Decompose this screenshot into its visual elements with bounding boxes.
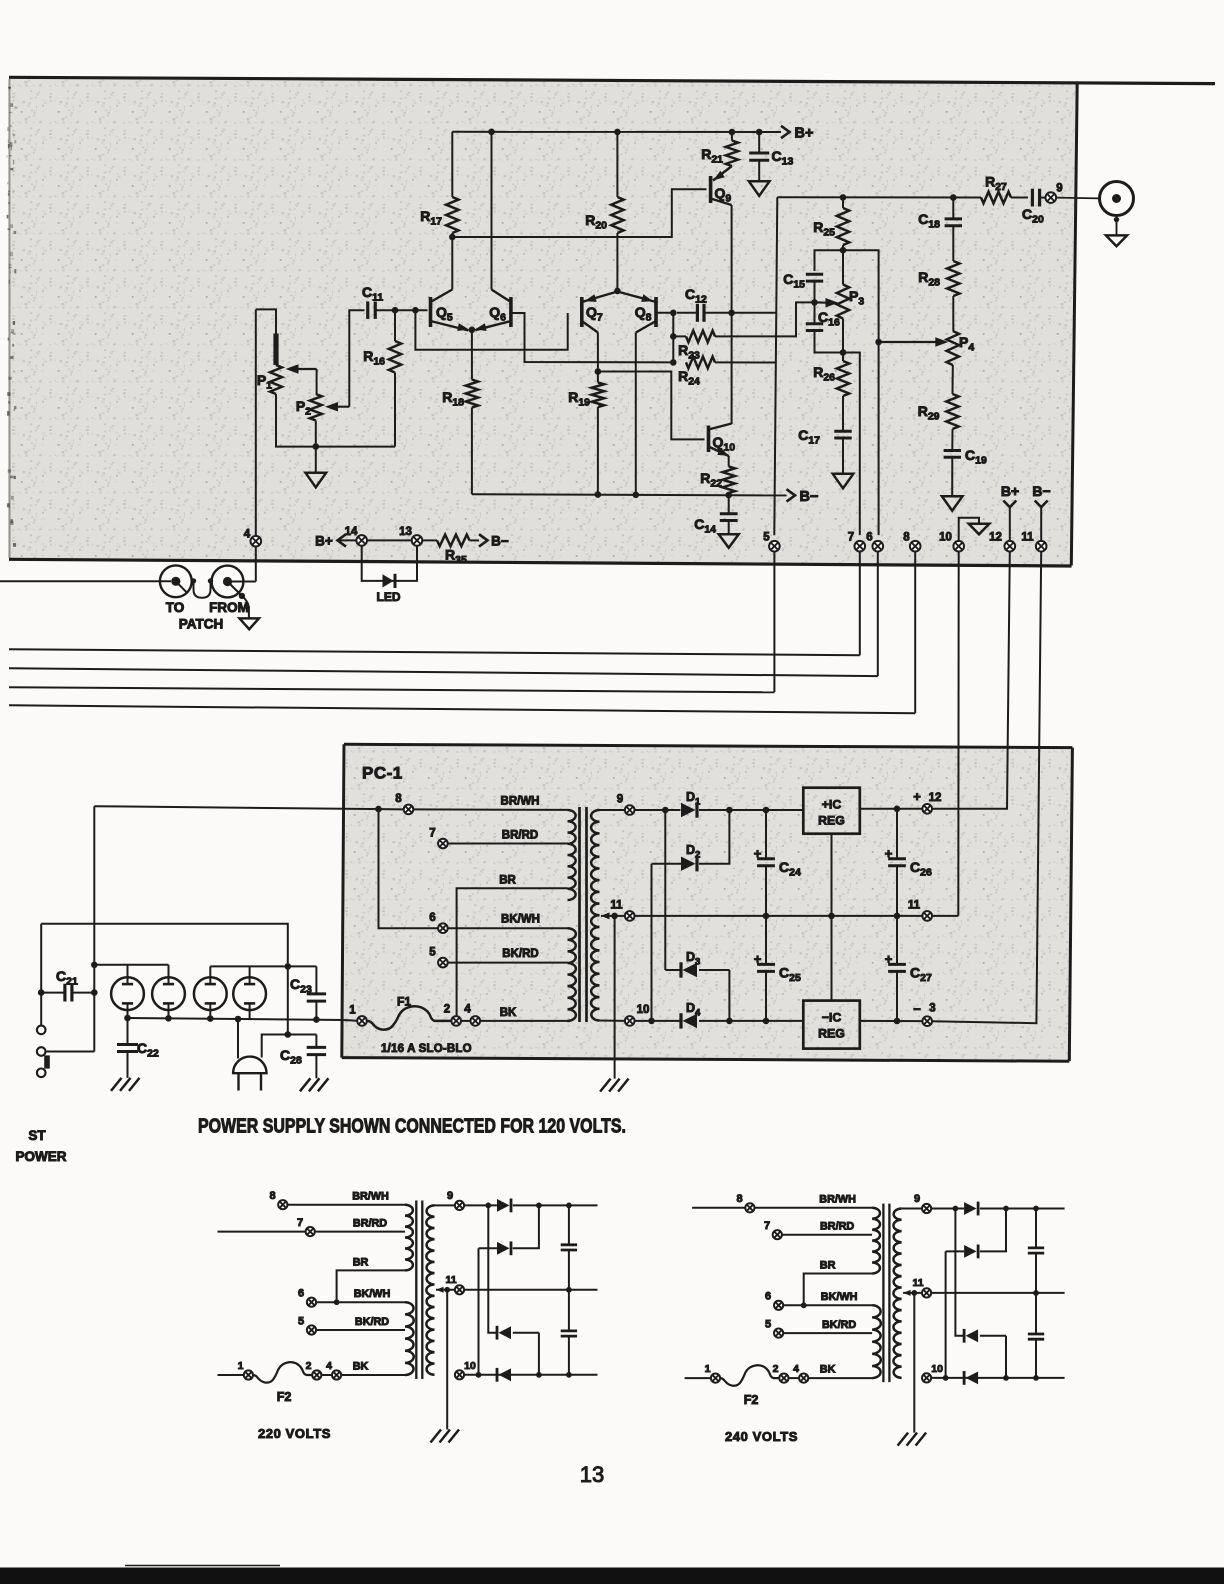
terminal 2 (PC-1) <box>451 1016 461 1026</box>
resistor R19 <box>592 372 604 495</box>
label R25 <box>813 219 835 239</box>
label BK/WH (220V) <box>354 1288 391 1300</box>
label BK (240V) <box>820 1364 836 1376</box>
label TO <box>166 600 185 615</box>
label D3 <box>686 950 700 968</box>
label 2 (220V) <box>306 1360 312 1372</box>
node: R19 bottom <box>595 491 602 498</box>
label F2 (220V) <box>277 1390 292 1404</box>
AC plug <box>233 1057 266 1091</box>
ground (C17) <box>833 474 854 489</box>
svg-text:14: 14 <box>345 526 358 538</box>
resistor R27 <box>981 192 1028 204</box>
P1 wiper arrow <box>286 364 317 374</box>
potentiometer P3 <box>837 250 849 318</box>
svg-text:B+: B+ <box>1001 483 1019 499</box>
wire tap to chassis (240V) <box>913 1293 915 1433</box>
label 6 (220V) <box>298 1288 304 1300</box>
footer stray mark <box>125 1565 280 1567</box>
wire link line 4 (to 8) <box>9 705 915 713</box>
label 1 (PC-1) <box>349 1005 356 1017</box>
node: R23 left <box>670 333 677 340</box>
ground hook (terminal 10) <box>959 518 979 541</box>
diode D4 <box>681 1013 697 1028</box>
label BK/RD (220V) <box>355 1316 389 1328</box>
diode D1 <box>681 802 697 817</box>
label Q10 <box>713 434 736 454</box>
node: D3 bottom (220V) <box>536 1372 542 1378</box>
capacitor C20 <box>1032 189 1045 207</box>
node: C18 top <box>950 194 957 201</box>
label 6 (PC-1) <box>429 912 435 924</box>
label 9 (220V) <box>447 1190 453 1202</box>
node: 9-row branch (240V) <box>953 1206 959 1212</box>
wire secondary to terminal 9 (240V) <box>902 1208 923 1210</box>
resistor R25 <box>837 197 849 250</box>
svg-text:F1: F1 <box>397 995 411 1009</box>
label 240 VOLTS <box>725 1429 798 1444</box>
label + (C27) <box>885 952 893 967</box>
wire 9 row (220V) <box>464 1204 497 1206</box>
svg-text:+: + <box>885 846 893 861</box>
label C13 <box>772 148 794 168</box>
svg-text:5: 5 <box>763 532 770 544</box>
FROM sleeve contact dot <box>239 593 245 599</box>
label 3 (PC-1) <box>929 1003 935 1015</box>
terminal 12 (PC-1) <box>922 804 932 814</box>
transformer core (240V) <box>883 1204 889 1383</box>
P3 wiper arrow <box>815 298 839 308</box>
label R20 <box>585 212 607 232</box>
svg-text:BK: BK <box>500 1007 517 1019</box>
power switch bar <box>44 1055 50 1068</box>
label 9 (PC-1) <box>617 794 623 806</box>
terminal 1 (240V) <box>711 1374 720 1383</box>
terminal 10 <box>953 541 964 552</box>
node: cap2 bottom (240V) <box>1033 1375 1039 1381</box>
svg-text:1: 1 <box>349 1005 356 1017</box>
label 8 <box>903 532 910 544</box>
wire branch to D3 (240V) <box>955 1209 964 1336</box>
capacitor C16 <box>806 302 843 352</box>
wire Q5-base node to Q7 base (line A) <box>415 310 567 350</box>
node: cap mid (240V) <box>1033 1290 1039 1296</box>
wire Q8 collector <box>635 333 637 495</box>
wire D2 anode vertical (240V) <box>945 1251 947 1378</box>
footer black bar <box>0 1568 1224 1584</box>
capacitor C12 <box>677 304 732 322</box>
chassis ground (220V) <box>431 1430 460 1443</box>
svg-text:6: 6 <box>429 912 435 924</box>
wire terminal 5 to primary <box>448 962 568 964</box>
wire B+ to terminal 12 <box>1009 507 1011 541</box>
wire Q7-collector to Q10 base <box>598 372 705 440</box>
label R28 <box>918 269 940 289</box>
svg-text:PC-1: PC-1 <box>362 764 403 783</box>
resistor R22 <box>723 456 735 493</box>
wire P1 bottom <box>276 394 316 447</box>
terminal 4 (240V) <box>799 1374 808 1383</box>
label R35 <box>445 547 467 567</box>
ground (input network) <box>306 473 327 488</box>
node: C21 right <box>91 989 98 996</box>
wire output node to riser <box>732 312 777 314</box>
capacitor C14 <box>720 495 738 534</box>
svg-text:TO: TO <box>166 600 185 615</box>
label C12 <box>685 286 707 306</box>
terminal 7 (240V) <box>773 1230 782 1239</box>
label Q5 <box>436 304 453 324</box>
wire LED loop <box>362 546 417 581</box>
label 11 <box>1021 532 1034 544</box>
LED diode <box>383 574 396 588</box>
wire 8 to primary (240V) <box>755 1207 873 1209</box>
terminal 10 (240V) <box>922 1373 931 1382</box>
wire BR tap (220V) <box>337 1270 405 1302</box>
svg-text:B+: B+ <box>795 126 814 142</box>
potentiometer P1 <box>270 365 282 394</box>
capacitor (rect filter 1) (240V) <box>1028 1209 1044 1293</box>
wire R23 right to C15/C16 node <box>728 302 815 336</box>
label BR (220V) <box>353 1257 369 1269</box>
B+ rail wire <box>452 131 781 133</box>
node: C21 left <box>38 989 45 996</box>
svg-text:2: 2 <box>444 1004 450 1016</box>
capacitor C26 (+) <box>888 809 906 916</box>
wire 4 to primary (220V) <box>341 1374 405 1376</box>
node: D3/D4 junction <box>726 1018 733 1025</box>
capacitor C11 <box>368 302 376 319</box>
label 220 VOLTS <box>258 1426 331 1441</box>
label B- (terminal 11) <box>1032 483 1050 499</box>
schematic panel background (main amplifier board) <box>11 79 1077 565</box>
terminal 11 (220V) <box>455 1285 464 1294</box>
resistor R17 <box>446 132 458 233</box>
label Q9 <box>715 185 732 205</box>
svg-text:8: 8 <box>395 793 402 805</box>
node: regulator common <box>828 913 835 920</box>
wire Q5 collector <box>451 237 453 290</box>
svg-text:4: 4 <box>244 529 251 541</box>
indicator lamp 2 <box>152 965 185 1019</box>
terminal 5 (220V) <box>307 1325 316 1334</box>
svg-text:1/16 A SLO-BLO: 1/16 A SLO-BLO <box>381 1043 472 1055</box>
ground (terminal 10) <box>969 524 990 535</box>
node: C24/C25 midpoint <box>763 913 770 920</box>
0V rail (PC-1) <box>635 915 923 917</box>
capacitor (rect filter 2) (240V) <box>1028 1293 1044 1378</box>
wire Q8 base <box>656 312 673 314</box>
wire center tap <box>601 915 625 917</box>
capacitor C19 <box>944 429 961 496</box>
indicator lamp 4 <box>233 966 266 1020</box>
node: BR tap joins BK/WH (220V) <box>334 1299 340 1305</box>
svg-text:240 VOLTS: 240 VOLTS <box>725 1429 798 1444</box>
label 9 (output terminal) <box>1056 183 1062 195</box>
label + (C26) <box>885 846 893 861</box>
terminal 9 (output) <box>1046 192 1057 203</box>
wire terminal 6 drop <box>877 552 879 677</box>
terminal 7 <box>855 541 866 552</box>
wire center tap (220V) <box>436 1289 455 1291</box>
label R24 <box>678 368 700 388</box>
capacitor C21 <box>41 984 94 1002</box>
label BR <box>499 874 516 886</box>
P2 wiper arrow <box>325 402 349 412</box>
terminal 1 (PC-1) <box>357 1016 367 1026</box>
wire B- to terminal 11 <box>1040 507 1042 541</box>
node: D1/D2 junction (220V) <box>536 1203 542 1209</box>
label 8 (PC-1) <box>395 793 402 805</box>
wire terminal 6 to primary <box>448 927 568 929</box>
svg-text:BK/WH: BK/WH <box>501 914 540 926</box>
terminal 4 (PC-1) <box>471 1016 481 1026</box>
terminal 11 (PC-1 right) <box>922 911 932 921</box>
label FROM <box>209 600 249 615</box>
svg-text:+: + <box>885 952 893 967</box>
diode D4 (rect) (220V) <box>497 1368 511 1382</box>
capacitor C18 <box>945 198 962 262</box>
capacitor C28 <box>307 1035 326 1079</box>
wire D3 row (220V) <box>513 1332 539 1334</box>
node: D3 bottom (240V) <box>1003 1375 1009 1381</box>
wire contact 2 to riser <box>46 1051 95 1053</box>
terminal 8 (PC-1) <box>404 805 414 815</box>
label Q8 <box>635 304 652 324</box>
svg-text:10: 10 <box>939 532 952 544</box>
chassis ground (PC-1) <box>600 1079 629 1092</box>
svg-text:BR/WH: BR/WH <box>501 796 540 808</box>
wire center tap (240V) <box>903 1292 922 1294</box>
label C24 <box>779 859 801 879</box>
terminal 5 (240V) <box>774 1329 783 1338</box>
svg-text:PATCH: PATCH <box>179 617 224 632</box>
node: D1/D2 junction (240V) <box>1003 1206 1009 1212</box>
wire feedback node vertical <box>672 313 674 363</box>
node: P4 wiper tap <box>875 339 882 346</box>
node: C27 bottom <box>894 1018 901 1025</box>
label + (C24) <box>754 846 762 861</box>
terminal 11 (240V) <box>922 1288 931 1297</box>
svg-text:8: 8 <box>903 532 910 544</box>
svg-text:6: 6 <box>866 532 872 544</box>
svg-text:13: 13 <box>580 1462 604 1487</box>
svg-text:9: 9 <box>617 794 623 806</box>
label 7 <box>848 532 854 544</box>
wire D3 down (220V) <box>538 1333 540 1375</box>
wire Q9 collector to output node <box>731 205 733 424</box>
svg-text:FROM: FROM <box>209 600 249 615</box>
fuse F2 (220V) <box>253 1362 312 1383</box>
wire C15 to wiper node <box>814 281 816 302</box>
node: rail junction to C13 <box>756 129 763 136</box>
label BK <box>500 1007 517 1019</box>
patch normal contact dots <box>191 578 213 583</box>
label 5 (240V) <box>765 1319 771 1331</box>
svg-text:BR/WH: BR/WH <box>819 1194 856 1206</box>
wire link line 2 (to 6) <box>9 668 878 676</box>
caption POWER SUPPLY <box>198 1116 626 1138</box>
power switch contact 3 <box>37 1069 46 1078</box>
wire secondary bottom to terminal 10 <box>600 1020 625 1022</box>
wire secondary to terminal 9 (220V) <box>435 1204 456 1206</box>
node: D2 anode bottom (220V) <box>476 1372 482 1378</box>
wire 10 row (220V) <box>464 1374 597 1376</box>
wire D2 cathode up (220V) <box>513 1205 539 1248</box>
svg-text:+: + <box>913 789 921 804</box>
svg-text:7: 7 <box>297 1217 303 1229</box>
terminal 11 (PC-1 left) <box>625 911 635 921</box>
svg-text:10: 10 <box>637 1004 650 1016</box>
node: rail junction to R20 <box>614 129 621 136</box>
wire R25-bottom to terminal 6 branch <box>843 250 879 535</box>
label B- (LED) <box>491 534 509 549</box>
transistor Q9 (PNP) <box>711 166 732 205</box>
label 4 (220V) <box>326 1360 332 1372</box>
wire lamp loop top <box>41 924 288 1035</box>
svg-text:12: 12 <box>989 532 1002 544</box>
label C16 <box>818 309 840 329</box>
node: Q7 collector / R19 <box>595 368 602 375</box>
svg-text:BK/RD: BK/RD <box>502 948 538 960</box>
node: 8/6 strap <box>375 806 382 813</box>
svg-text:11: 11 <box>913 1277 924 1289</box>
wire link line 3 (to 5) <box>9 687 774 692</box>
wire input stub fuse row (220V) <box>218 1374 244 1376</box>
ground (C13) <box>749 181 770 196</box>
resistor R16 <box>389 310 401 446</box>
label + (C25) <box>754 952 762 967</box>
terminal 10 (220V) <box>455 1370 464 1379</box>
svg-text:+IC: +IC <box>822 798 842 812</box>
resistor R20 <box>611 132 623 291</box>
svg-text:10: 10 <box>931 1363 943 1375</box>
wire terminal 8 drop <box>914 552 916 714</box>
wire D3 row (240V) <box>980 1335 1006 1337</box>
label C26 <box>910 859 932 879</box>
wire 13 to R35 <box>422 539 437 541</box>
label B+ (terminal 12) <box>1001 483 1019 499</box>
svg-text:LED: LED <box>377 590 401 604</box>
node: C24 top <box>763 807 770 814</box>
svg-text:13: 13 <box>399 526 412 538</box>
main board left edge speckle <box>7 79 18 558</box>
label 2 (PC-1) <box>444 1004 450 1016</box>
page number 13 <box>580 1462 604 1487</box>
label C21 <box>56 968 78 988</box>
B+ drop arrow <box>1003 501 1016 508</box>
node: C22 junction <box>124 1015 131 1022</box>
label 4 <box>244 529 251 541</box>
wire lamp bus B <box>210 965 316 967</box>
wire D1 cathode row (240V) <box>980 1208 1065 1210</box>
transformer core <box>580 807 587 1022</box>
power switch contact 1 <box>37 1026 46 1035</box>
svg-text:4: 4 <box>326 1360 332 1372</box>
svg-text:7: 7 <box>764 1220 770 1232</box>
wire terminal 9 to jack <box>1056 197 1099 200</box>
wire 8-6 strap <box>379 809 439 928</box>
capacitor C22 <box>117 1018 138 1078</box>
wire terminal 5 drop <box>773 552 775 693</box>
svg-text:−IC: −IC <box>822 1011 842 1025</box>
label R21 <box>701 146 723 166</box>
label 1/16A SLO-BLO <box>381 1043 472 1055</box>
label BR/RD (220V) <box>353 1218 387 1230</box>
label R16 <box>363 348 385 368</box>
resistor R24 <box>686 357 776 369</box>
wire link line 1 (to 7) <box>9 649 860 655</box>
node: Q7/Q8 emitter junction <box>614 288 621 295</box>
chassis ground (C28) <box>300 1078 329 1091</box>
label C15 <box>783 271 805 291</box>
ground (patch FROM sleeve) <box>240 618 259 629</box>
svg-text:7: 7 <box>848 532 854 544</box>
wire terminal 4 to primary <box>480 1020 567 1022</box>
label 9 (240V) <box>914 1193 920 1205</box>
label 4 (240V) <box>793 1363 799 1375</box>
terminal 8 <box>910 541 921 552</box>
svg-text:1: 1 <box>238 1360 244 1372</box>
panel texture <box>11 79 1077 565</box>
label 8 (240V) <box>737 1193 743 1205</box>
wire 6 to primary (240V) <box>783 1304 872 1306</box>
transistor Q8 <box>617 292 656 333</box>
svg-text:11: 11 <box>445 1274 456 1286</box>
svg-text:REG: REG <box>818 1027 845 1041</box>
transformer secondary winding (220V) <box>426 1205 434 1374</box>
wire R25-bottom to C15 <box>815 250 844 271</box>
node: Q5/Q6 emitter junction <box>469 327 476 334</box>
wire 5 to primary (240V) <box>783 1332 872 1334</box>
wire input stub to 8 (240V) <box>692 1207 745 1209</box>
label 11 (PC-1 right) <box>908 900 921 912</box>
PC-1 bottom border <box>342 1058 1070 1062</box>
label C25 <box>779 965 801 985</box>
svg-text:BR/RD: BR/RD <box>353 1218 387 1230</box>
capacitor (rect filter 1) (220V) <box>561 1205 577 1289</box>
wire to ground (input bus) <box>315 447 317 473</box>
label C28 <box>280 1047 302 1067</box>
wire terminal 11 drop to PC-1 <box>932 552 1041 1024</box>
svg-text:BK/WH: BK/WH <box>821 1291 858 1303</box>
svg-text:B−: B− <box>491 534 509 549</box>
node: Q8 collector bottom <box>633 492 640 499</box>
label - (terminal 3) <box>913 1002 921 1017</box>
svg-text:POWER SUPPLY SHOWN CONNECTED F: POWER SUPPLY SHOWN CONNECTED FOR 120 VOL… <box>198 1116 626 1138</box>
label 7 (PC-1) <box>429 828 435 840</box>
output RCA jack <box>1100 182 1134 216</box>
wire 9 row (240V) <box>931 1208 964 1210</box>
wire terminal 10 to -reg <box>635 1020 804 1022</box>
node: D2 anode bottom (240V) <box>943 1375 949 1381</box>
label D2 <box>686 843 700 861</box>
label C18 <box>918 211 940 231</box>
wire output riser <box>774 197 777 535</box>
resistor R18 <box>466 330 478 408</box>
node: R25 top <box>840 194 847 201</box>
svg-text:B−: B− <box>800 489 819 505</box>
wire 14 to 13 <box>367 539 412 541</box>
wire line bus (to PC-1 terminal 1) <box>128 1018 344 1020</box>
wire 2 to 4 <box>461 1020 471 1022</box>
node: feedback takeoff at Q5 base <box>412 307 419 314</box>
label ST <box>28 1128 46 1143</box>
wire 11 row (220V) <box>464 1289 597 1291</box>
node: rail junction to Q6 collector <box>488 129 495 136</box>
wire input from page edge to TO jack <box>0 580 171 582</box>
svg-text:B+: B+ <box>315 534 333 549</box>
